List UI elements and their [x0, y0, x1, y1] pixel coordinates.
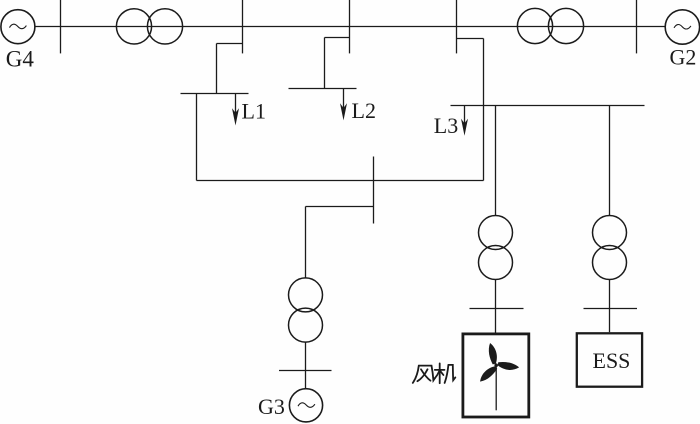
wind turbine rotor blade lower-left — [477, 364, 498, 384]
generator G4 — [1, 10, 35, 44]
wind turbine rotor blade right — [497, 361, 519, 371]
wire L3 jog horizontal — [457, 38, 484, 40]
wire ESS feeder — [609, 106, 611, 216]
busbar tick B6 (middle) — [373, 157, 375, 224]
wire L2 jog horizontal — [325, 37, 350, 39]
svg-text:ESS: ESS — [593, 348, 631, 373]
label 机 (ji) — [435, 363, 456, 383]
transformer T2 left winding — [517, 8, 552, 43]
svg-text:G3: G3 — [258, 394, 285, 419]
wire L2 jog vertical — [324, 38, 326, 89]
wind turbine rotor blade up — [487, 342, 499, 365]
busbar L2 bar — [289, 88, 357, 90]
busbar tick B2 (L1 feeder) — [242, 0, 244, 53]
load L2 arrow — [343, 89, 345, 110]
transformer T1 right winding — [147, 9, 182, 44]
wire L3 jog vertical down to lower bus — [483, 39, 485, 181]
busbar L3 bar (distribution bus) — [451, 105, 645, 107]
ESS box — [577, 333, 642, 386]
svg-text:L1: L1 — [242, 99, 266, 124]
busbar G3 bar — [279, 370, 332, 372]
wire G3 jog horizontal — [306, 206, 374, 208]
busbar L1 bar — [181, 93, 249, 95]
busbar lower bus — [197, 180, 484, 182]
svg-text:G4: G4 — [6, 47, 35, 72]
wire top bus — [35, 26, 665, 28]
transformer T1 left winding — [116, 9, 151, 44]
wire L1 bar to lower bus — [196, 94, 198, 181]
wind turbine mast — [495, 365, 497, 410]
wire T3 to G3 — [305, 342, 307, 389]
generator G2 — [665, 10, 699, 44]
wire T4 to wind box — [495, 280, 497, 333]
transformer T3 lower winding — [289, 308, 323, 342]
wire G3 jog vertical — [305, 207, 307, 279]
transformer T5 upper winding — [593, 216, 627, 250]
busbar tick B4 (L3 feeder) — [456, 0, 458, 53]
wire L1 jog vertical — [216, 44, 218, 94]
wind turbine box — [463, 334, 529, 417]
transformer T4 lower winding — [479, 246, 513, 280]
generator G3 — [289, 389, 322, 422]
wire T5 to ESS box — [609, 280, 611, 333]
wind turbine rotor hub — [494, 363, 498, 367]
label 风 (feng) — [413, 366, 435, 383]
svg-text:L3: L3 — [434, 113, 458, 138]
svg-text:G2: G2 — [670, 45, 697, 70]
wire wind feeder — [495, 106, 497, 216]
transformer T5 lower winding — [593, 246, 627, 280]
transformer T4 upper winding — [479, 216, 513, 250]
load L1 arrow — [235, 94, 237, 115]
busbar tick B3 (L2 feeder) — [349, 0, 351, 53]
transformer T2 right winding — [548, 8, 583, 43]
busbar tick B5 — [636, 0, 638, 53]
wire L1 jog horizontal — [217, 43, 243, 45]
svg-text:L2: L2 — [352, 98, 376, 123]
busbar tick B1 — [60, 0, 62, 53]
busbar ESS bar — [584, 308, 638, 310]
transformer T3 upper winding — [289, 278, 323, 312]
load L3 arrow — [464, 106, 466, 127]
busbar wind bar — [470, 308, 524, 310]
